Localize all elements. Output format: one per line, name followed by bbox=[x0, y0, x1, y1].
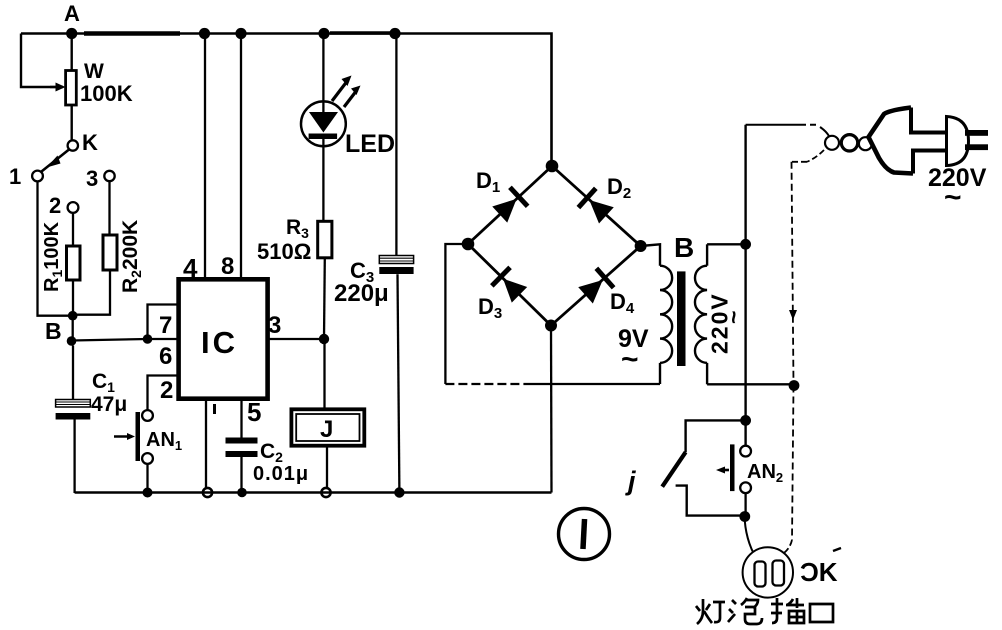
node bridge left bbox=[462, 238, 475, 251]
switch contact 3 bbox=[86, 166, 115, 191]
svg-text:D1: D1 bbox=[476, 168, 500, 196]
wire IC pin 2 bbox=[148, 376, 179, 411]
capacitor C3 220u bbox=[334, 28, 414, 498]
svg-text:D3: D3 bbox=[478, 294, 502, 322]
svg-text:AN1: AN1 bbox=[146, 429, 182, 453]
relay contact j bbox=[625, 420, 746, 515]
capacitor C1 47u bbox=[56, 346, 128, 494]
wire contact3 to R2 bbox=[108, 181, 110, 235]
junction AN1 ground bbox=[143, 488, 153, 498]
junction J ground bbox=[321, 488, 330, 497]
junction primary bottom / plug neutral bbox=[789, 380, 800, 391]
capacitor C2 0.01u bbox=[226, 438, 310, 486]
junction primary top bbox=[740, 239, 751, 250]
svg-text:ƆK: ƆK bbox=[800, 557, 838, 587]
svg-text:C2: C2 bbox=[260, 440, 283, 465]
node bridge bottom bbox=[545, 320, 557, 332]
svg-text:3: 3 bbox=[86, 166, 98, 191]
switch contact 2 bbox=[49, 193, 78, 218]
potentiometer W 100K bbox=[50, 34, 133, 141]
wire IC pin 4 bbox=[183, 28, 210, 283]
灯 bbox=[696, 599, 725, 624]
node bridge top bbox=[546, 160, 559, 173]
wire to lamp socket bbox=[745, 521, 760, 563]
svg-text:A: A bbox=[64, 1, 80, 26]
svg-text:R2200K: R2200K bbox=[119, 220, 144, 293]
push button AN2 bbox=[716, 444, 783, 516]
wire IC pin 5 bbox=[237, 397, 261, 497]
wire IC pin 6 bbox=[148, 339, 179, 370]
wire IC pin 7 bbox=[148, 305, 179, 340]
op-amp IC U1 bbox=[179, 279, 268, 398]
wire J to ground rail bbox=[326, 446, 328, 493]
diode D2 bbox=[577, 187, 616, 225]
插 bbox=[771, 598, 804, 623]
switch contact 1 bbox=[9, 164, 43, 189]
svg-text:2: 2 bbox=[49, 193, 61, 218]
wire bridge left to AC bottom bbox=[445, 244, 468, 384]
svg-text:J: J bbox=[320, 416, 333, 443]
svg-text:j: j bbox=[625, 466, 636, 496]
push button AN1 bbox=[114, 410, 182, 492]
泡 bbox=[728, 598, 762, 624]
arrow on neutral wire bbox=[789, 310, 797, 320]
wire R1 bottom bbox=[72, 280, 74, 316]
resistor R2 200K bbox=[103, 220, 144, 293]
wire contact2 to R1 bbox=[72, 213, 74, 246]
svg-text:R3: R3 bbox=[286, 216, 309, 241]
wire IC pin 3 bbox=[268, 312, 324, 339]
junction switch top bbox=[740, 415, 751, 426]
twisted cord loops bbox=[825, 135, 872, 151]
wire mains live vertical bbox=[744, 125, 746, 446]
LED D5 bbox=[301, 28, 395, 221]
junction pin7 node bbox=[143, 334, 153, 344]
svg-text:6: 6 bbox=[159, 343, 172, 370]
wire contact1 to node bbox=[38, 182, 70, 316]
svg-text:100K: 100K bbox=[80, 81, 133, 106]
wire mains live to plug bbox=[746, 125, 829, 136]
wire R3 to pin3 node bbox=[323, 258, 326, 339]
resistor R1 100K bbox=[41, 221, 80, 292]
junction pin3 node bbox=[319, 334, 329, 344]
wire IC pin 1 bbox=[203, 399, 216, 497]
svg-text:5: 5 bbox=[247, 397, 261, 427]
svg-text:B: B bbox=[674, 232, 694, 263]
node B bbox=[45, 318, 76, 346]
transformer core bbox=[677, 271, 686, 366]
node bridge right bbox=[635, 240, 647, 252]
svg-text:R1100K: R1100K bbox=[41, 221, 65, 292]
svg-text:4: 4 bbox=[183, 253, 198, 283]
wire mains neutral dashed bbox=[784, 150, 824, 553]
wire bridge bottom to ground rail bbox=[550, 326, 553, 493]
relay J bbox=[291, 409, 364, 445]
wire top rail bbox=[21, 33, 552, 166]
mains plug bbox=[869, 108, 989, 174]
wire pin3 to relay J bbox=[323, 339, 325, 409]
diode D3 bbox=[490, 266, 529, 305]
svg-text:510Ω: 510Ω bbox=[257, 239, 311, 264]
svg-text:D2: D2 bbox=[607, 174, 631, 202]
svg-text:1: 1 bbox=[9, 164, 21, 189]
node A bbox=[64, 1, 80, 39]
svg-text:C1: C1 bbox=[92, 370, 115, 395]
wire to node B bbox=[72, 316, 74, 341]
label 220V primary bbox=[707, 292, 747, 354]
bridge rectifier arms bbox=[468, 166, 641, 326]
svg-text:2: 2 bbox=[160, 377, 173, 404]
lamp socket CK bbox=[743, 547, 841, 597]
diode D1 bbox=[491, 186, 530, 224]
svg-text:AN2: AN2 bbox=[747, 461, 783, 485]
transformer B secondary winding bbox=[641, 244, 673, 384]
svg-text:LED: LED bbox=[345, 130, 395, 158]
label 220V mains bbox=[928, 164, 987, 214]
svg-text:D4: D4 bbox=[610, 289, 635, 317]
wire R2 bottom bbox=[73, 270, 110, 315]
svg-text:0.01μ: 0.01μ bbox=[253, 463, 309, 485]
svg-text:47μ: 47μ bbox=[91, 393, 127, 416]
svg-text:3: 3 bbox=[268, 312, 281, 339]
label 9V secondary bbox=[618, 325, 649, 376]
ground rail (bottom) bbox=[75, 491, 552, 494]
svg-text:8: 8 bbox=[221, 253, 234, 280]
junction switch bottom bbox=[739, 511, 750, 522]
svg-text:~: ~ bbox=[721, 311, 747, 324]
口 bbox=[810, 604, 833, 622]
wire IC pin 8 bbox=[221, 28, 247, 280]
transformer primary winding bbox=[695, 244, 794, 384]
svg-text:B: B bbox=[45, 318, 62, 344]
switch K lever bbox=[42, 130, 99, 172]
wire B to IC bbox=[72, 339, 148, 341]
caption lamp socket (Chinese) bbox=[696, 598, 833, 624]
svg-text:K: K bbox=[82, 130, 98, 155]
svg-text:W: W bbox=[84, 60, 104, 83]
svg-text:~: ~ bbox=[944, 181, 962, 214]
diode D4 bbox=[577, 267, 616, 305]
svg-text:220μ: 220μ bbox=[334, 280, 389, 307]
figure number circled 1 bbox=[559, 509, 610, 560]
svg-text:~: ~ bbox=[621, 343, 639, 376]
junction resistor node bbox=[68, 311, 78, 321]
svg-text:IC: IC bbox=[201, 325, 238, 360]
resistor R3 510ohm bbox=[257, 216, 332, 264]
svg-text:7: 7 bbox=[159, 312, 172, 339]
